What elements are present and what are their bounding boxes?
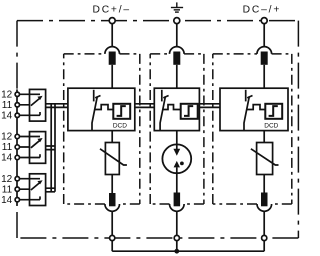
U3 fixed contact (245, 90, 247, 102)
svg-text:DC–/+: DC–/+ (243, 4, 281, 15)
fuse F3 module 3 (261, 52, 268, 65)
left border solid segment through terminal circles (16, 89, 18, 205)
U3 switch blade (244, 96, 249, 130)
module 3 top bump (257, 47, 272, 54)
module 3 bottom contact (261, 193, 268, 207)
K2 blade arrow (31, 140, 41, 148)
module 1 bottom bump (105, 204, 120, 211)
module 3 bottom bump (257, 204, 272, 211)
U2 pulse waveform (163, 105, 181, 110)
module 1 dashed box (64, 54, 140, 204)
U1 switch blade (92, 96, 97, 130)
module 2 bottom bump (170, 204, 185, 211)
terminal DC+/- (109, 18, 115, 24)
wire fuse3 to DCD box U3 (263, 65, 265, 88)
wire DC+/- terminal to module 1 fuse (111, 24, 113, 47)
wire varistor R1 to contact (111, 175, 113, 194)
wire U3 to varistor R2 (263, 131, 265, 143)
module 2 dashed box (150, 54, 204, 204)
svg-text:11: 11 (2, 100, 13, 111)
U2 trigger box (181, 104, 198, 119)
svg-text:DCD: DCD (264, 123, 278, 130)
base terminal node 3 (262, 235, 267, 240)
varistor R2 diagonal (251, 149, 279, 165)
group3 terminal circles (15, 177, 19, 181)
group3 switch box K3 (30, 174, 46, 206)
G1 gas dot (180, 162, 184, 166)
U1 fixed contact (93, 90, 95, 102)
ground symbol (171, 2, 183, 12)
U3 contact tick (247, 96, 252, 98)
G1 top arrow stem (176, 144, 178, 149)
wire G1 to contact (176, 173, 178, 192)
bottom Y bus (112, 250, 264, 252)
group1 switch box K1 (30, 89, 46, 121)
base terminal node 1 (110, 235, 115, 240)
remote contact group 1: wires from terminals 12/11/14 (20, 94, 41, 115)
DCD box U2 (154, 88, 199, 130)
K1 blade arrow (31, 98, 41, 106)
group3 pair (46, 188, 55, 192)
wire fuse1 to DCD box U1 (111, 65, 113, 88)
fuse F2 module 2 (173, 52, 180, 65)
G1 bottom arrow head (174, 161, 180, 168)
svg-text:12: 12 (1, 132, 13, 143)
wire DC-/+ terminal to module 3 fuse (263, 24, 265, 47)
G1 bottom arrow stem (176, 167, 178, 173)
U2 switch blade (160, 96, 165, 130)
group2 terminal circles (15, 134, 19, 138)
wire varistor R2 to contact (263, 175, 265, 194)
module 2 top bump (170, 47, 185, 54)
svg-text:14: 14 (1, 153, 13, 164)
K3 contact 14 hook (39, 196, 41, 199)
remote contact group 2: wires (20, 137, 41, 158)
U2 trigger box step symbol (184, 106, 193, 116)
K3 blade arrow (31, 182, 41, 190)
group2 switch box K2 (30, 132, 46, 164)
U3 pulse waveform (247, 105, 266, 110)
svg-text:12: 12 (1, 90, 13, 101)
vertical pair linking groups (51, 104, 55, 192)
module 1 top bump (105, 47, 120, 54)
varistor R1 diagonal (100, 149, 127, 165)
wire U1 to varistor R1 (111, 131, 113, 143)
U3 trigger box (265, 104, 282, 119)
wire ground terminal to module 2 fuse (176, 24, 178, 47)
module 1 bottom contact (109, 193, 116, 206)
svg-text:12: 12 (1, 174, 13, 185)
double line U2 to U3 (199, 104, 220, 108)
DCD box U3 (220, 88, 288, 130)
U1 trigger box (113, 104, 130, 119)
svg-text:DCD: DCD (113, 123, 127, 130)
signalling double-line bus: group1 pair to module chain (46, 104, 68, 108)
svg-text:14: 14 (1, 111, 13, 122)
svg-text:11: 11 (2, 184, 13, 195)
DCD box U1 (68, 88, 135, 130)
wire U2 to spark gap G1 (176, 131, 178, 145)
wire module3 bottom to bus (263, 211, 265, 251)
double line U1 to U2 (135, 104, 155, 108)
module 2 bottom contact (174, 193, 181, 207)
varistor R2 (257, 143, 273, 175)
U1 contact tick (95, 96, 100, 98)
base terminal node 2 (174, 235, 179, 240)
svg-text:14: 14 (1, 195, 13, 206)
G1 top arrow head (173, 149, 180, 156)
U1 pulse waveform (95, 105, 114, 110)
module 3 dashed box (213, 54, 292, 204)
U2 contact tick (163, 96, 168, 98)
fuse F1 module 1 (109, 52, 116, 65)
U1 trigger box step symbol (117, 106, 126, 116)
K2 contact 14 hook (39, 154, 41, 157)
group1 terminal circles (15, 92, 19, 96)
group2 pair (46, 146, 55, 150)
varistor R1 (105, 143, 119, 175)
spark gap G1 circle (162, 144, 191, 173)
svg-text:DC+/–: DC+/– (92, 4, 130, 15)
svg-text:11: 11 (2, 142, 13, 153)
K1 contact 14 hook (39, 112, 41, 115)
terminal ground top (174, 18, 180, 24)
U3 trigger box step symbol (269, 106, 278, 116)
wire module2 bottom to bus (176, 211, 178, 251)
outer enclosure border (dash-dot) (17, 21, 298, 238)
wire fuse2 to DCD box U2 (176, 65, 178, 88)
U2 fixed contact (161, 90, 163, 102)
bus junction dot (174, 249, 179, 254)
terminal DC-/+ (261, 18, 267, 24)
remote contact group 3: wires (20, 179, 41, 200)
wire module1 bottom to bus (111, 211, 113, 251)
